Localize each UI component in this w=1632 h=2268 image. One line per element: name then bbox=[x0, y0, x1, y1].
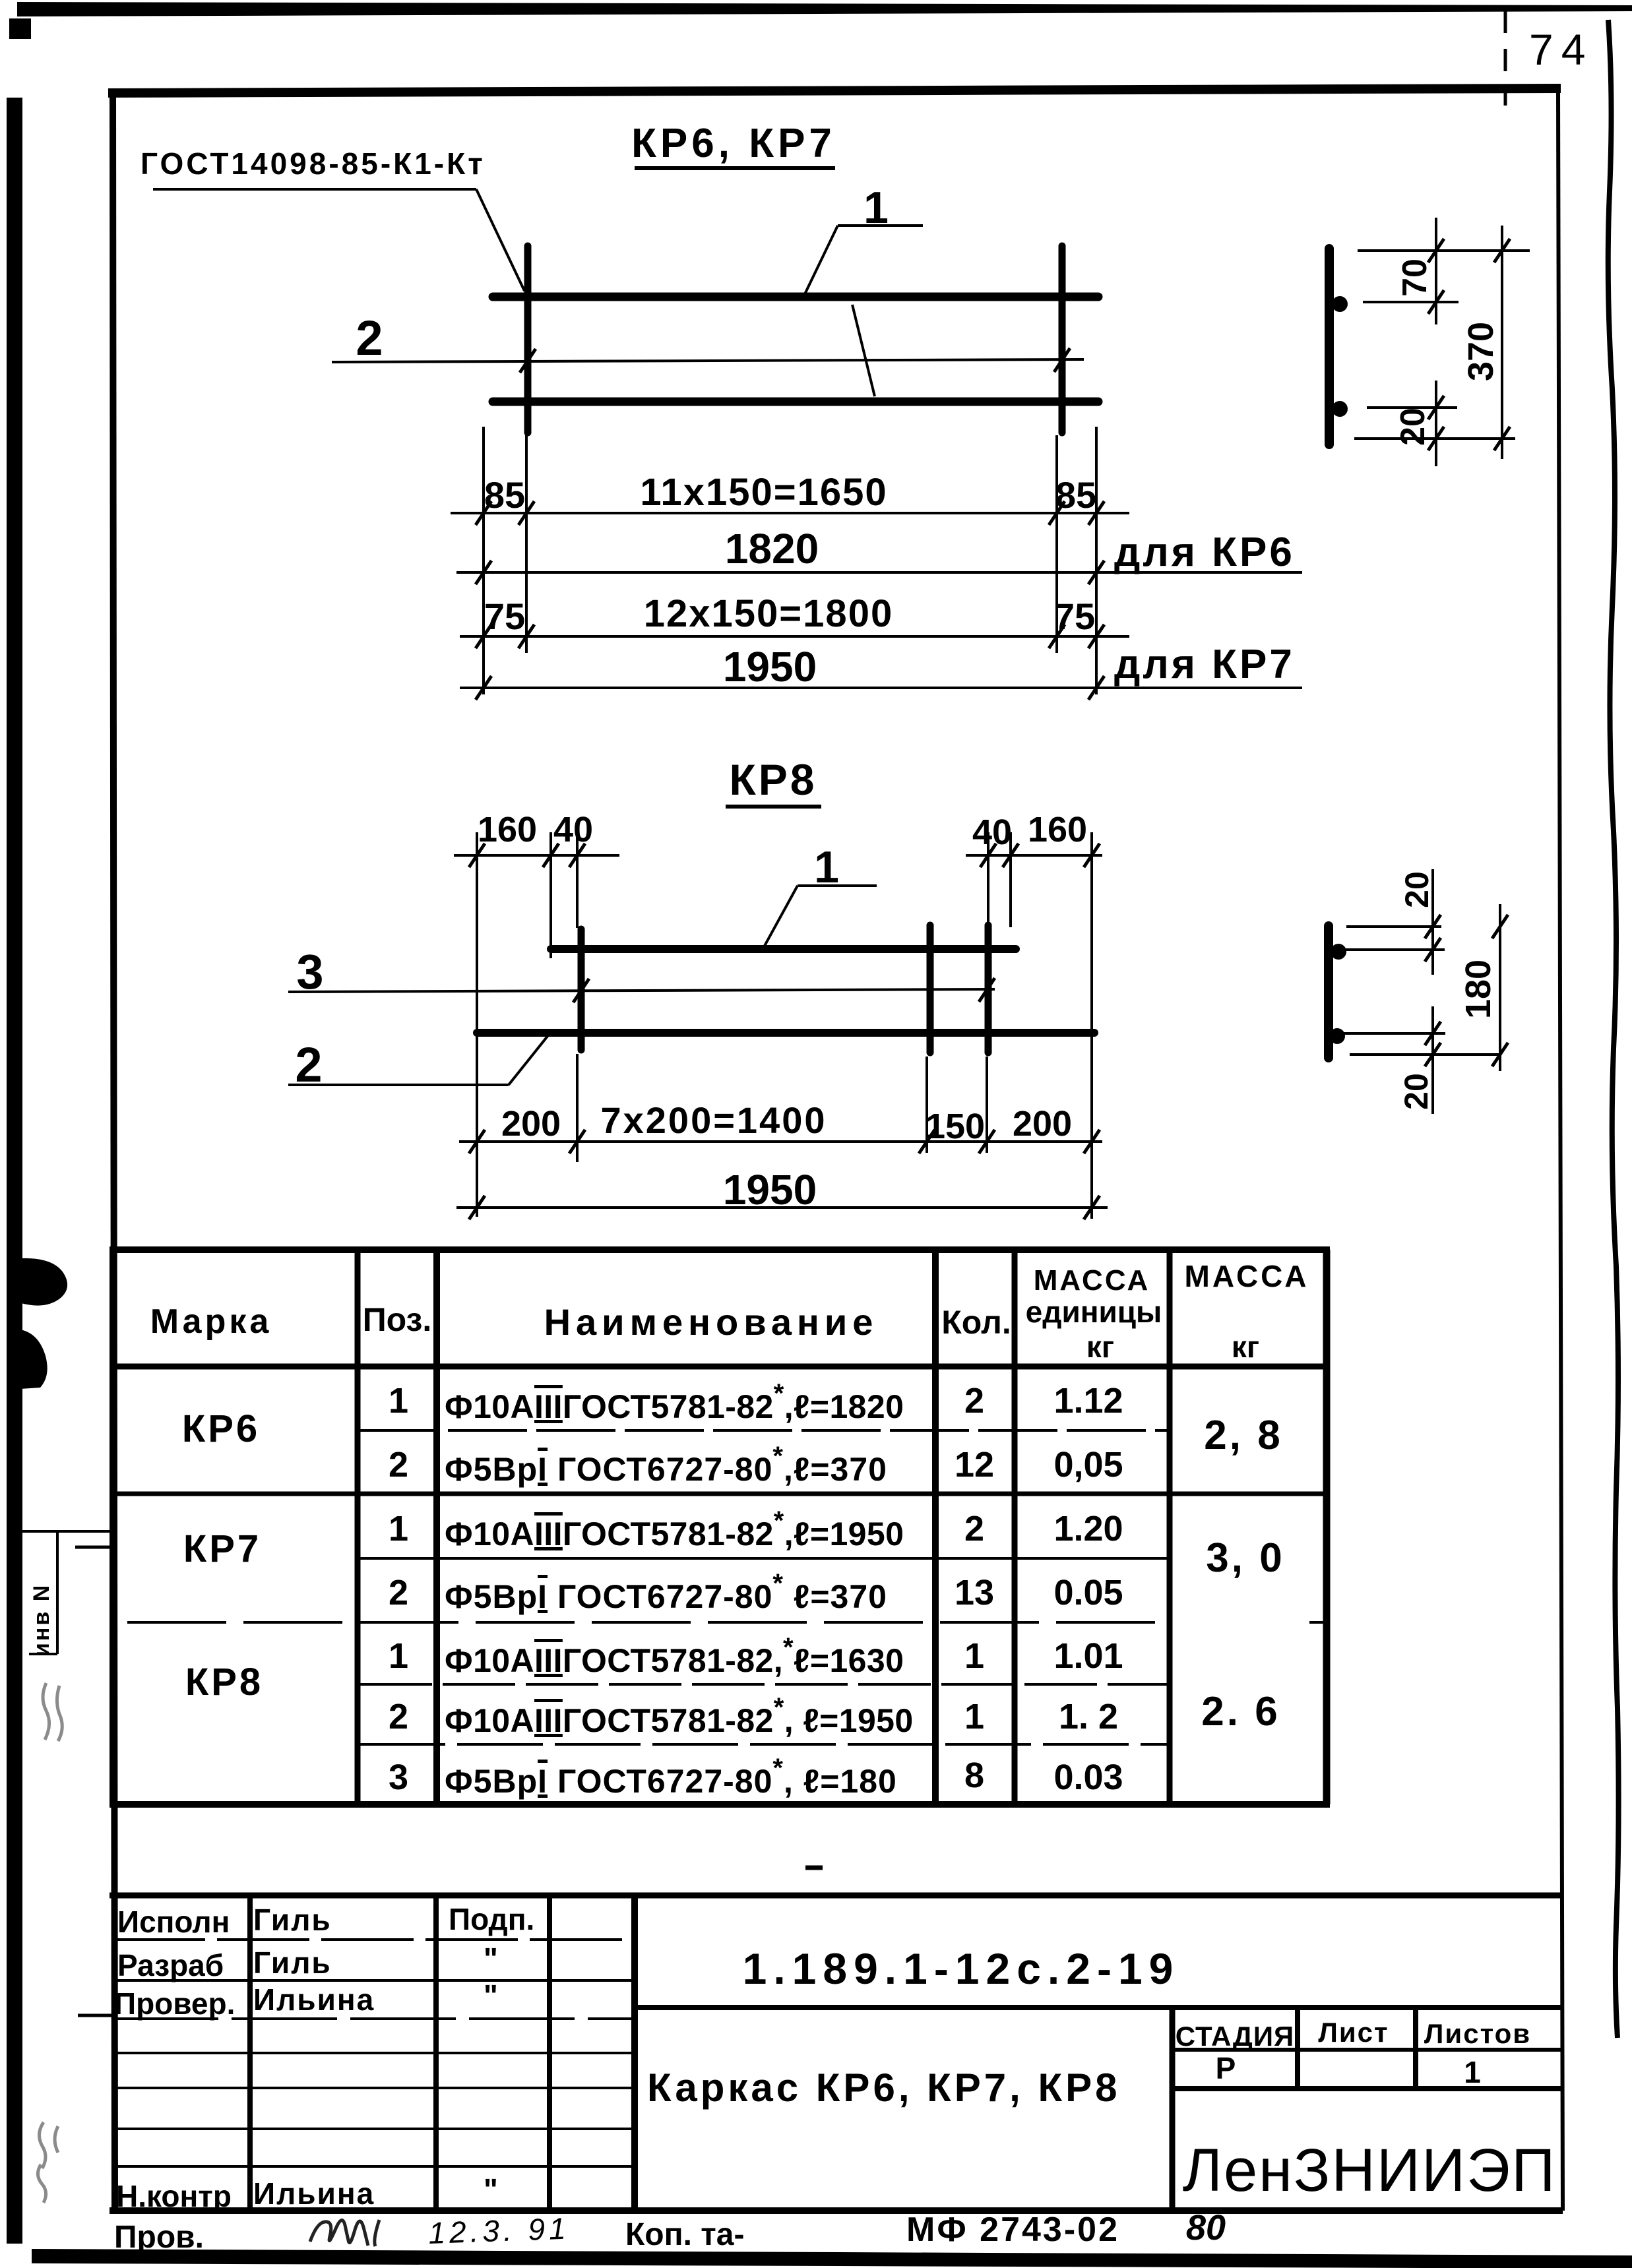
tick bbox=[1088, 561, 1104, 584]
tick bbox=[1049, 501, 1065, 525]
svg-text:КР6, КР7: КР6, КР7 bbox=[631, 121, 836, 166]
svg-text:370: 370 bbox=[1461, 322, 1501, 381]
svg-text:2: 2 bbox=[389, 1573, 408, 1612]
svg-text:0.03: 0.03 bbox=[1053, 1758, 1123, 1797]
column line Marka/Poz bbox=[355, 1250, 361, 1804]
svg-text:КР8: КР8 bbox=[185, 1661, 263, 1703]
svg-text:единицы: единицы bbox=[1026, 1295, 1162, 1329]
tick bbox=[1428, 427, 1444, 450]
svg-text:74: 74 bbox=[1529, 25, 1593, 74]
stadiya box left line bbox=[1170, 2007, 1176, 2211]
row line KR6/KR7 bbox=[110, 1492, 1330, 1496]
tick bbox=[1425, 1022, 1441, 1045]
svg-text:Ильина: Ильина bbox=[253, 1982, 375, 2017]
dim line inner upper segment bbox=[1435, 218, 1437, 324]
svg-text:1950: 1950 bbox=[723, 643, 817, 690]
pencil squiggle lower bbox=[38, 2122, 58, 2203]
svg-text:2: 2 bbox=[389, 1445, 408, 1485]
extension line bar top bbox=[1346, 925, 1441, 928]
figure KR8 bbox=[288, 755, 1108, 1219]
rebar dot top bbox=[1331, 944, 1346, 960]
row line 1 bbox=[113, 1938, 635, 1941]
svg-text:для КР7: для КР7 bbox=[1114, 642, 1295, 687]
transverse bar right poz2 bbox=[1059, 246, 1066, 433]
svg-text:КР6: КР6 bbox=[182, 1407, 260, 1450]
transverse bar middle poz3 bbox=[927, 925, 934, 1053]
svg-text:1.20: 1.20 bbox=[1053, 1509, 1123, 1548]
specification table bbox=[110, 1250, 1330, 1804]
row line 6 bbox=[113, 2128, 635, 2130]
figure KR6 KR7 bbox=[141, 121, 1302, 700]
tick bbox=[1084, 1196, 1100, 1219]
svg-text:Листов: Листов bbox=[1424, 2018, 1531, 2049]
short extension above dim line middle bar bbox=[926, 1057, 928, 1153]
leader line poz2 bbox=[332, 359, 1084, 362]
title block bbox=[110, 1895, 1563, 2255]
svg-text:МАССА: МАССА bbox=[1034, 1264, 1150, 1297]
svg-text:Гиль: Гиль bbox=[253, 1946, 332, 1980]
leader 1 underline bbox=[798, 884, 877, 887]
header bottom line bbox=[110, 1364, 1330, 1370]
svg-text:1: 1 bbox=[389, 1381, 408, 1421]
svg-text:200: 200 bbox=[1013, 1104, 1072, 1144]
column line Naimenovanie/Kol bbox=[932, 1250, 939, 1804]
svg-text:85: 85 bbox=[1055, 474, 1096, 516]
svg-text:Коп. та-: Коп. та- bbox=[625, 2217, 744, 2252]
svg-text:12.3. 91: 12.3. 91 bbox=[428, 2211, 571, 2250]
tick bbox=[469, 843, 485, 867]
extension line dot bottom bbox=[1342, 1032, 1445, 1035]
transverse bar right poz3 bbox=[985, 925, 992, 1053]
tick bbox=[1425, 938, 1441, 962]
svg-text:11х150=1650: 11х150=1650 bbox=[640, 471, 887, 514]
extension line left bar bbox=[525, 435, 528, 653]
top-left corner square bbox=[9, 18, 31, 39]
stadiya row bottom line bbox=[1172, 2086, 1561, 2091]
list/listov line bbox=[1413, 2007, 1418, 2089]
svg-text:160: 160 bbox=[478, 810, 537, 849]
top scan edge bar bbox=[17, 2, 1632, 16]
extension line dot bottom bbox=[1367, 406, 1457, 409]
svg-text:КР7: КР7 bbox=[183, 1527, 261, 1570]
transverse bar side view bbox=[1325, 249, 1334, 444]
svg-text:инв N: инв N bbox=[29, 1583, 54, 1657]
svg-text:7х200=1400: 7х200=1400 bbox=[600, 1099, 827, 1141]
dim line outer 180 bbox=[1499, 904, 1501, 1071]
svg-text:3: 3 bbox=[296, 944, 323, 999]
svg-text:1.189.1-12с.2-19: 1.189.1-12с.2-19 bbox=[743, 1944, 1180, 1993]
svg-text:12: 12 bbox=[955, 1445, 994, 1485]
row line KR6 poz1/poz2 bbox=[360, 1429, 1170, 1432]
row line 2 bbox=[113, 1979, 635, 1982]
tick bbox=[980, 843, 996, 867]
rebar dot top bbox=[1332, 296, 1348, 312]
svg-text:Провер.: Провер. bbox=[114, 1986, 235, 2021]
tick bbox=[919, 1130, 935, 1153]
svg-text:КР8: КР8 bbox=[729, 755, 817, 804]
svg-text:2: 2 bbox=[356, 311, 383, 365]
stadiya header underline bbox=[1172, 2048, 1561, 2052]
title block bottom border / frame bottom bbox=[110, 2207, 1563, 2214]
tick bbox=[1428, 396, 1444, 419]
svg-text:ГОСТ14098-85-К1-Кт: ГОСТ14098-85-К1-Кт bbox=[141, 146, 486, 181]
tick bbox=[518, 625, 534, 648]
svg-text:2: 2 bbox=[964, 1381, 984, 1421]
svg-text:": " bbox=[484, 1978, 498, 2013]
tick bbox=[1425, 1043, 1441, 1066]
svg-text:1: 1 bbox=[1464, 2055, 1481, 2089]
svg-text:1.01: 1.01 bbox=[1053, 1636, 1123, 1676]
svg-text:180: 180 bbox=[1459, 960, 1498, 1019]
table left border bbox=[110, 1250, 116, 1804]
row line KR7 poz1/poz2 bbox=[360, 1557, 1170, 1560]
dim line inner lower segment bbox=[1431, 1006, 1434, 1114]
dim line inner lower segment bbox=[1435, 381, 1437, 466]
frame top border bbox=[108, 88, 1561, 93]
svg-text:ЛенЗНИИЭП: ЛенЗНИИЭП bbox=[1183, 2137, 1557, 2204]
figure title underline bbox=[635, 166, 835, 170]
tick bbox=[1428, 239, 1444, 262]
dim line 1820 bbox=[456, 571, 1302, 574]
leader slash left bbox=[520, 349, 536, 373]
svg-text:Кол.: Кол. bbox=[941, 1304, 1011, 1341]
dim line 1950 bbox=[460, 687, 1302, 689]
extension line bar bottom bbox=[1350, 1053, 1499, 1056]
transverse bar left poz3 bbox=[578, 929, 585, 1050]
svg-text:200: 200 bbox=[501, 1104, 561, 1144]
doc number cell bottom line bbox=[635, 2005, 1561, 2010]
rebar poz2 bottom longitudinal bar bbox=[477, 1029, 1094, 1037]
margin tick upper bbox=[75, 1546, 113, 1549]
tick bbox=[1494, 427, 1510, 450]
svg-text:12х150=1800: 12х150=1800 bbox=[644, 592, 893, 635]
left bar blob bbox=[20, 1258, 67, 1306]
svg-text:3: 3 bbox=[389, 1758, 408, 1797]
svg-text:1: 1 bbox=[389, 1509, 408, 1548]
tick bbox=[1492, 1043, 1508, 1066]
tick bbox=[569, 1130, 585, 1153]
weld label leader underline bbox=[153, 188, 476, 191]
svg-text:1820: 1820 bbox=[725, 525, 819, 572]
svg-text:40: 40 bbox=[972, 812, 1012, 852]
tick bbox=[476, 561, 491, 584]
extension line far right long bbox=[1090, 832, 1093, 1219]
leader slash right bbox=[1054, 348, 1070, 372]
row line 3 bbox=[113, 2017, 635, 2020]
svg-text:75: 75 bbox=[1054, 596, 1095, 637]
svg-text:Лист: Лист bbox=[1318, 2017, 1389, 2048]
top dim line right bbox=[966, 854, 1102, 857]
table top border bbox=[110, 1246, 1330, 1253]
extension line left bar top bbox=[576, 832, 579, 928]
svg-text:20: 20 bbox=[1398, 871, 1435, 908]
row line 5 bbox=[113, 2087, 635, 2089]
svg-text:2: 2 bbox=[964, 1509, 984, 1548]
extension line dot top bbox=[1363, 301, 1459, 303]
tick bbox=[979, 1130, 995, 1153]
svg-text:Марка: Марка bbox=[150, 1303, 272, 1341]
column line Poz/Naimenovanie bbox=[433, 1250, 440, 1804]
column line Kol/MassaEd bbox=[1012, 1250, 1018, 1804]
svg-text:0,05: 0,05 bbox=[1053, 1445, 1123, 1485]
rebar poz1 top longitudinal bar bbox=[493, 293, 1098, 301]
tick bbox=[1428, 290, 1444, 314]
dashed fold line top right bbox=[1504, 11, 1507, 106]
extension line 40 left bbox=[549, 832, 552, 958]
inv number stamp box line bottom bbox=[29, 1653, 57, 1655]
svg-text:Наименование: Наименование bbox=[544, 1301, 879, 1343]
svg-text:1. 2: 1. 2 bbox=[1059, 1697, 1118, 1736]
transverse bar left poz2 bbox=[524, 246, 532, 433]
column line MassaEd/Massa bbox=[1167, 1250, 1173, 1804]
svg-text:Разраб: Разраб bbox=[117, 1948, 224, 1982]
table bottom border bbox=[110, 1801, 1330, 1808]
svg-text:20: 20 bbox=[1398, 1073, 1435, 1110]
svg-text:Р: Р bbox=[1216, 2051, 1236, 2085]
row line 4 bbox=[113, 2052, 635, 2054]
tick bbox=[469, 1130, 485, 1153]
svg-text:1: 1 bbox=[964, 1636, 984, 1676]
tick bbox=[476, 676, 491, 700]
svg-text:20: 20 bbox=[1394, 408, 1432, 446]
extension line 40 right bbox=[1009, 832, 1012, 927]
svg-text:Ильина: Ильина bbox=[253, 2176, 375, 2211]
pencil squiggle upper bbox=[43, 1683, 62, 1741]
svg-text:1: 1 bbox=[389, 1636, 408, 1676]
svg-text:8: 8 bbox=[964, 1756, 984, 1795]
rebar poz1 top longitudinal bar bbox=[551, 945, 1016, 953]
svg-text:Исполн: Исполн bbox=[117, 1905, 230, 1939]
tick bbox=[518, 501, 534, 525]
table right border bbox=[1323, 1250, 1331, 1804]
svg-text:1.12: 1.12 bbox=[1053, 1381, 1123, 1421]
tick bbox=[469, 1196, 485, 1219]
svg-text:13: 13 bbox=[955, 1573, 994, 1612]
tick bbox=[543, 843, 559, 867]
row line 7 bbox=[113, 2165, 635, 2168]
svg-text:80: 80 bbox=[1186, 2208, 1226, 2248]
tick bbox=[1084, 1130, 1100, 1153]
rebar dot bottom bbox=[1332, 401, 1348, 417]
tick bbox=[1088, 501, 1104, 525]
dim line 75+1800+75 bbox=[460, 635, 1129, 638]
frame right border bbox=[1558, 88, 1563, 2211]
dim line 1950 bbox=[456, 1206, 1108, 1209]
svg-text:40: 40 bbox=[553, 810, 593, 849]
svg-text:70: 70 bbox=[1396, 259, 1434, 297]
section view KR6 KR7 bbox=[1329, 218, 1530, 466]
svg-text:МАССА: МАССА bbox=[1185, 1259, 1309, 1293]
short extension above dim line right bar bbox=[986, 1057, 988, 1153]
svg-text:Пров.: Пров. bbox=[114, 2220, 204, 2255]
margin tick lower bbox=[78, 2014, 113, 2017]
leader poz2 diagonal bbox=[509, 1032, 551, 1085]
svg-text:1950: 1950 bbox=[723, 1166, 817, 1213]
svg-text:СТАДИЯ: СТАДИЯ bbox=[1176, 2021, 1294, 2052]
tick bbox=[1088, 676, 1104, 700]
svg-text:Н.контр: Н.контр bbox=[116, 2179, 232, 2213]
svg-text:1: 1 bbox=[964, 1697, 984, 1736]
dim line 85+1650+85 bbox=[451, 512, 1129, 514]
stadiya/list line bbox=[1295, 2007, 1300, 2089]
column line 3 bbox=[547, 1895, 552, 2211]
tick bbox=[1425, 915, 1441, 938]
extension line bar bottom bbox=[1354, 437, 1515, 440]
leader line poz2 bbox=[288, 1084, 509, 1086]
svg-text:2. 6: 2. 6 bbox=[1201, 1689, 1280, 1734]
extension line far left long bbox=[476, 832, 478, 1217]
svg-text:для КР6: для КР6 bbox=[1114, 530, 1295, 575]
tick bbox=[1003, 843, 1019, 867]
svg-text:2: 2 bbox=[389, 1697, 408, 1736]
leader line poz3 bbox=[288, 989, 995, 992]
svg-text:0.05: 0.05 bbox=[1053, 1573, 1123, 1612]
svg-text:160: 160 bbox=[1028, 810, 1087, 849]
extension line bar top bbox=[1358, 249, 1530, 252]
leader 1 underline bbox=[838, 224, 923, 227]
svg-text:2: 2 bbox=[295, 1037, 322, 1092]
svg-text:": " bbox=[484, 1942, 498, 1976]
svg-text:3, 0: 3, 0 bbox=[1206, 1535, 1284, 1581]
svg-text:кг: кг bbox=[1232, 1330, 1259, 1364]
svg-text:2, 8: 2, 8 bbox=[1204, 1413, 1282, 1458]
bottom scan edge bar bbox=[32, 2249, 1632, 2268]
extension line right outer bbox=[1095, 427, 1098, 694]
svg-text:МФ 2743-02: МФ 2743-02 bbox=[906, 2211, 1119, 2249]
row line KR7/KR8 dashed bbox=[127, 1621, 1170, 1624]
title block top border bbox=[110, 1893, 1561, 1899]
right paper edge bbox=[1608, 20, 1619, 2038]
svg-text:Поз.: Поз. bbox=[363, 1301, 432, 1338]
svg-text:Подп.: Подп. bbox=[449, 1902, 534, 1936]
left scan edge bar bbox=[7, 98, 22, 2244]
tick bbox=[1088, 625, 1104, 648]
extension line left outer bbox=[482, 427, 485, 694]
dim line outer 370 bbox=[1501, 226, 1503, 459]
svg-text:": " bbox=[484, 2172, 498, 2207]
svg-text:Гиль: Гиль bbox=[253, 1903, 332, 1937]
column line 1 bbox=[247, 1895, 253, 2211]
column line 4 big cell boundary bbox=[631, 1895, 638, 2211]
row line KR7/KR8 massa column dash bbox=[1309, 1621, 1329, 1624]
dim line 200+1400+150+200 bbox=[459, 1140, 1102, 1143]
dim line inner upper segment bbox=[1431, 869, 1434, 975]
row line KR8 poz2/poz3 bbox=[360, 1743, 1170, 1746]
section view KR8 bbox=[1329, 869, 1508, 1114]
leader slash left bbox=[573, 979, 589, 1002]
leader 1 diagonal bbox=[764, 886, 798, 947]
leader 1 diagonal top to bottom bar bbox=[852, 305, 875, 396]
tick bbox=[476, 501, 491, 525]
left bar taper bbox=[20, 1330, 47, 1389]
row line KR8 poz1/poz2 bbox=[360, 1683, 1170, 1686]
rebar dot bottom bbox=[1329, 1028, 1345, 1044]
leader 1 diagonal to top bar bbox=[804, 226, 838, 295]
tick bbox=[1494, 239, 1510, 262]
tick bbox=[1049, 625, 1065, 648]
short extension above dim line left bar bbox=[576, 1054, 579, 1162]
tick bbox=[1084, 843, 1100, 867]
frame left border bbox=[113, 93, 115, 2211]
inv number stamp box line top bbox=[19, 1530, 112, 1533]
tick bbox=[1492, 915, 1508, 938]
extension line right bar bbox=[1055, 435, 1058, 653]
svg-text:150: 150 bbox=[926, 1107, 985, 1146]
tick bbox=[569, 843, 585, 867]
svg-text:85: 85 bbox=[484, 474, 525, 516]
svg-text:Каркас КР6, КР7, КР8: Каркас КР6, КР7, КР8 bbox=[647, 2066, 1121, 2110]
svg-text:кг: кг bbox=[1086, 1330, 1114, 1364]
leader slash right bbox=[979, 978, 995, 1002]
rebar poz1 bottom longitudinal bar bbox=[493, 398, 1098, 406]
transverse bar side view bbox=[1324, 926, 1333, 1058]
inv number stamp box line vertical bbox=[56, 1531, 59, 1654]
signature scribble bbox=[310, 2220, 379, 2246]
column line 2 bbox=[433, 1895, 439, 2211]
top dim line left bbox=[454, 854, 619, 857]
extension line right bar top bbox=[987, 832, 989, 925]
extension line dot top bbox=[1344, 948, 1445, 951]
tick bbox=[476, 625, 491, 648]
small dash above title block bbox=[805, 1866, 823, 1870]
weld label leader diagonal bbox=[476, 189, 524, 291]
figure title underline bbox=[726, 805, 821, 809]
svg-text:75: 75 bbox=[484, 596, 525, 637]
